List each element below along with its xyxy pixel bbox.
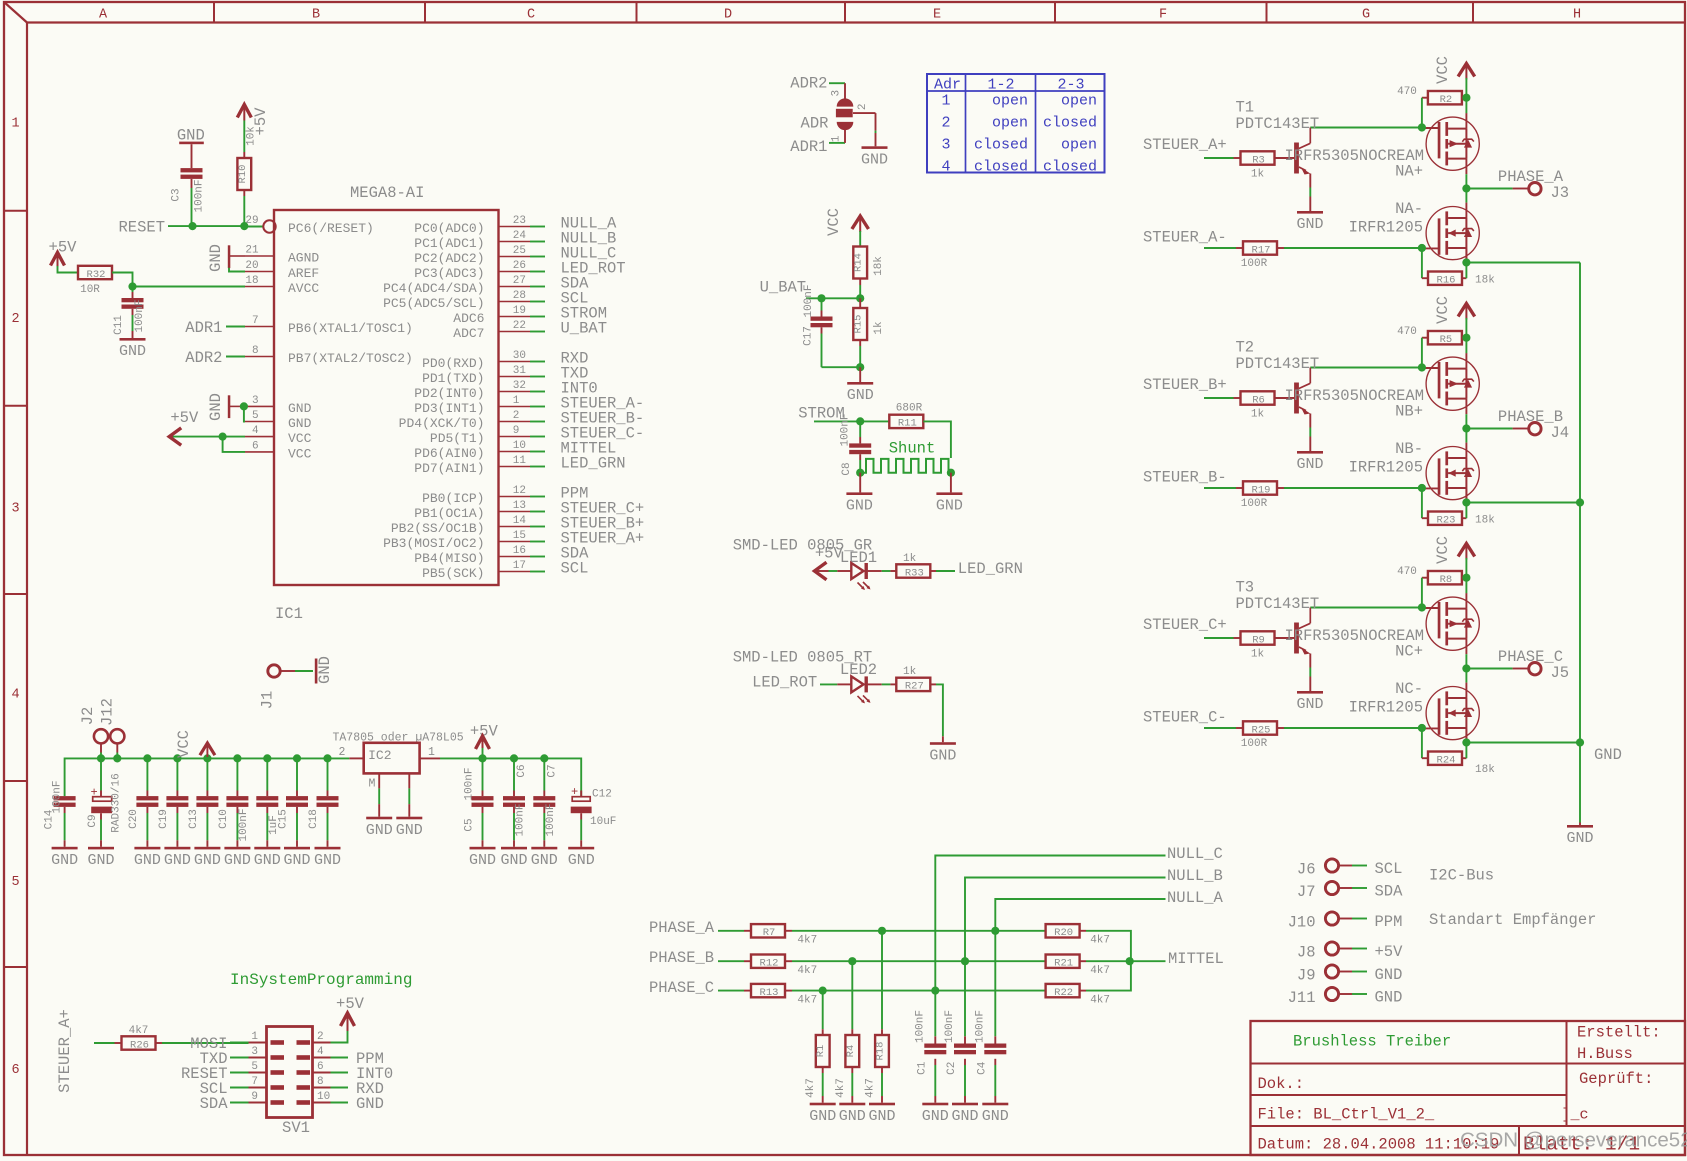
svg-text:File: BL_Ctrl_V1_2_: File: BL_Ctrl_V1_2_ xyxy=(1258,1106,1435,1124)
wire R20 to MITTEL xyxy=(1086,931,1131,961)
svg-text:C20: C20 xyxy=(128,809,140,829)
svg-text:GND: GND xyxy=(396,822,423,839)
junction xyxy=(219,433,227,441)
svg-text:Shunt: Shunt xyxy=(889,440,936,458)
svg-text:4k7: 4k7 xyxy=(1090,994,1110,1006)
svg-text:PB1(OC1A): PB1(OC1A) xyxy=(414,506,484,521)
svg-text:C17: C17 xyxy=(803,326,815,346)
wire R8 jog to gate xyxy=(1421,578,1423,608)
svg-text:18: 18 xyxy=(245,275,258,287)
svg-text:30: 30 xyxy=(513,350,526,362)
wire to connector J3 xyxy=(1466,188,1512,190)
svg-text:1k: 1k xyxy=(1251,168,1265,180)
junction xyxy=(856,469,864,477)
resistor R23 18k xyxy=(1421,488,1423,518)
svg-text:4: 4 xyxy=(11,687,19,702)
wire NULL_C xyxy=(935,856,1165,1037)
ground xyxy=(315,847,341,850)
svg-text:PB5(SCK): PB5(SCK) xyxy=(422,566,484,581)
svg-text:Standart Empfänger: Standart Empfänger xyxy=(1429,911,1596,929)
svg-text:PB7(XTAL2/TOSC2): PB7(XTAL2/TOSC2) xyxy=(288,351,413,366)
wire IC2 legs to GND xyxy=(378,773,380,788)
resistor R6 1k xyxy=(1241,391,1275,404)
svg-text:Geprüft:: Geprüft: xyxy=(1579,1070,1653,1088)
svg-text:100R: 100R xyxy=(1241,258,1268,270)
svg-text:GND: GND xyxy=(51,852,78,869)
svg-text:PD3(INT1): PD3(INT1) xyxy=(414,401,484,416)
svg-text:GND: GND xyxy=(1296,216,1323,233)
svg-text:23: 23 xyxy=(513,215,526,227)
svg-text:PHASE_C: PHASE_C xyxy=(649,979,714,997)
svg-text:PPM: PPM xyxy=(1375,913,1403,931)
svg-text:1-2: 1-2 xyxy=(987,76,1014,93)
wire gate lower FET xyxy=(1284,487,1422,489)
svg-text:GND: GND xyxy=(134,852,161,869)
svg-text:C14: C14 xyxy=(44,809,56,829)
wire source to GND rail xyxy=(1466,742,1580,744)
resistor R15 1k xyxy=(859,298,861,308)
svg-text:C8: C8 xyxy=(841,462,853,475)
svg-text:IC2: IC2 xyxy=(368,748,391,763)
svg-text:R4: R4 xyxy=(845,1045,857,1058)
svg-text:GND: GND xyxy=(119,343,146,360)
svg-text:closed: closed xyxy=(974,136,1028,153)
wire VCC rail xyxy=(1465,318,1467,353)
svg-text:C12: C12 xyxy=(592,788,612,800)
junction xyxy=(128,282,136,290)
svg-text:19: 19 xyxy=(513,305,526,317)
junction xyxy=(856,417,864,425)
capacitor C15 xyxy=(296,758,298,790)
svg-text:GND: GND xyxy=(861,151,888,168)
svg-text:GND: GND xyxy=(846,498,873,515)
svg-text:GND: GND xyxy=(87,852,114,869)
svg-text:R15: R15 xyxy=(853,315,865,334)
svg-text:2-3: 2-3 xyxy=(1057,76,1084,93)
svg-text:NA-: NA- xyxy=(1395,200,1423,218)
connector SV1 body xyxy=(267,1027,313,1118)
svg-text:R3: R3 xyxy=(1252,154,1265,166)
ground below C8 xyxy=(859,473,861,493)
ground xyxy=(531,847,557,850)
svg-text:31: 31 xyxy=(513,365,527,377)
wire NULL_A xyxy=(995,899,1165,1036)
svg-text:1k: 1k xyxy=(903,666,917,678)
wire VCC input rail xyxy=(65,758,350,796)
ground below C2 xyxy=(952,1103,978,1106)
svg-text:ADR1: ADR1 xyxy=(185,319,222,337)
svg-text:GND: GND xyxy=(1566,830,1593,847)
capacitor C5 100nF xyxy=(482,758,484,790)
svg-text:4k7: 4k7 xyxy=(797,965,817,977)
svg-text:R14: R14 xyxy=(853,253,865,272)
svg-text:C13: C13 xyxy=(188,809,200,829)
svg-text:VCC: VCC xyxy=(1434,56,1452,84)
svg-text:GND: GND xyxy=(356,1095,384,1113)
junction xyxy=(1418,603,1426,611)
junction xyxy=(856,363,864,371)
svg-text:IRFR1205: IRFR1205 xyxy=(1349,459,1423,477)
svg-text:VCC: VCC xyxy=(825,208,843,236)
svg-text:PD1(TXD): PD1(TXD) xyxy=(422,371,484,386)
wire RESET net xyxy=(168,225,245,227)
svg-text:R6: R6 xyxy=(1252,394,1265,406)
svg-text:GND: GND xyxy=(288,401,312,416)
capacitor C13 xyxy=(206,758,208,790)
svg-text:GND: GND xyxy=(288,416,312,431)
svg-text:4k7: 4k7 xyxy=(1090,935,1110,947)
svg-text:1: 1 xyxy=(11,116,19,131)
wire PHASE_C xyxy=(718,990,744,992)
svg-text:PDTC143ET: PDTC143ET xyxy=(1236,115,1320,133)
svg-text:PDTC143ET: PDTC143ET xyxy=(1236,595,1320,613)
svg-text:]_c: ]_c xyxy=(1562,1106,1589,1123)
svg-text:1k: 1k xyxy=(903,553,917,565)
wire STEUER_B+ xyxy=(1204,397,1234,399)
capacitor C17 100nF xyxy=(821,298,823,310)
svg-text:LED1: LED1 xyxy=(840,549,877,567)
svg-text:GND: GND xyxy=(847,387,874,404)
ground xyxy=(134,847,160,850)
junction xyxy=(819,987,827,995)
wire VCC pins xyxy=(173,436,245,438)
svg-text:open: open xyxy=(992,92,1028,109)
svg-text:100nF: 100nF xyxy=(193,179,205,212)
svg-text:GND: GND xyxy=(951,1108,978,1125)
svg-text:VCC: VCC xyxy=(288,431,312,446)
ground IC2 left leg xyxy=(366,817,392,820)
capacitor C6 100nF xyxy=(513,758,515,790)
svg-text:28: 28 xyxy=(513,290,526,302)
svg-text:100nF: 100nF xyxy=(914,1010,926,1043)
svg-text:STEUER_A+: STEUER_A+ xyxy=(1143,136,1227,154)
wire gate net NA+ xyxy=(1310,127,1422,129)
svg-text:PC3(ADC3): PC3(ADC3) xyxy=(414,266,484,281)
svg-text:6: 6 xyxy=(11,1063,19,1078)
svg-text:100nF: 100nF xyxy=(944,1010,956,1043)
junction xyxy=(1418,244,1426,252)
wire R22 to MITTEL xyxy=(1086,961,1131,990)
svg-text:GND: GND xyxy=(316,656,334,684)
svg-text:ADR2: ADR2 xyxy=(185,349,222,367)
svg-text:5: 5 xyxy=(11,875,19,890)
LED LED1 symbol xyxy=(851,563,863,579)
svg-text:STEUER_A-: STEUER_A- xyxy=(1143,229,1227,247)
svg-text:GND: GND xyxy=(314,852,341,869)
resistor R12 4k7 xyxy=(751,955,785,968)
wire phase node PHASE_A xyxy=(1465,174,1467,202)
svg-text:PD5(T1): PD5(T1) xyxy=(430,431,485,446)
svg-text:VCC: VCC xyxy=(1434,536,1452,564)
svg-text:M: M xyxy=(369,778,376,791)
wire R26 to SV1 xyxy=(162,1042,249,1044)
wire U_BAT xyxy=(806,297,860,299)
ground xyxy=(224,847,250,850)
svg-text:J1: J1 xyxy=(259,691,277,710)
svg-text:C: C xyxy=(527,7,535,22)
wire PHASE_B xyxy=(718,960,744,962)
svg-text:J10: J10 xyxy=(1288,914,1316,932)
svg-text:4k7: 4k7 xyxy=(797,994,817,1006)
resistor R11 680R xyxy=(889,415,923,428)
svg-text:GND: GND xyxy=(1375,966,1403,984)
ground below R4 xyxy=(839,1103,865,1106)
wire MITTEL xyxy=(1130,960,1166,962)
wire jumper pin2 to GND xyxy=(853,112,876,114)
svg-text:GND: GND xyxy=(1296,456,1323,473)
wire R5 jog to gate xyxy=(1421,338,1423,368)
svg-text:NC-: NC- xyxy=(1395,680,1423,698)
svg-text:IRFR1205: IRFR1205 xyxy=(1349,219,1423,237)
svg-text:R7: R7 xyxy=(763,927,776,939)
svg-text:GND: GND xyxy=(936,498,963,515)
svg-text:C6: C6 xyxy=(516,764,528,777)
svg-text:G: G xyxy=(1362,7,1370,22)
svg-text:ADC6: ADC6 xyxy=(453,311,484,326)
wire GND pins 3-5 xyxy=(244,406,245,421)
svg-text:R2: R2 xyxy=(1440,94,1453,106)
wire source to GND rail xyxy=(1466,502,1580,504)
junction xyxy=(478,754,486,762)
svg-text:18k: 18k xyxy=(1475,764,1495,776)
svg-text:closed: closed xyxy=(1043,158,1097,175)
svg-text:100nF: 100nF xyxy=(840,413,852,446)
svg-text:26: 26 xyxy=(513,260,526,272)
svg-text:12: 12 xyxy=(513,485,526,497)
svg-text:C3: C3 xyxy=(171,188,183,201)
svg-text:GND: GND xyxy=(164,852,191,869)
capacitor C20 xyxy=(146,758,148,790)
svg-text:4: 4 xyxy=(941,158,950,175)
wire ADR1 xyxy=(226,326,245,328)
svg-text:1: 1 xyxy=(941,92,950,109)
ground below C9 xyxy=(88,847,114,850)
wire row C xyxy=(792,990,1046,992)
svg-text:LED_ROT: LED_ROT xyxy=(752,674,817,692)
svg-text:13: 13 xyxy=(513,500,526,512)
wire ADR2 xyxy=(226,356,245,358)
wire R21 to MITTEL xyxy=(1086,960,1130,962)
svg-text:GND: GND xyxy=(469,852,496,869)
svg-text:H: H xyxy=(1573,7,1581,22)
capacitor C18 xyxy=(327,758,329,790)
svg-text:open: open xyxy=(1061,92,1097,109)
resistor R24 18k xyxy=(1421,728,1423,758)
svg-text:3: 3 xyxy=(251,1046,258,1058)
svg-text:2: 2 xyxy=(339,746,346,759)
svg-text:100nF: 100nF xyxy=(464,767,476,800)
svg-text:GND: GND xyxy=(1296,696,1323,713)
capacitor C4 100nF xyxy=(994,1036,996,1043)
svg-text:32: 32 xyxy=(513,380,526,392)
svg-text:STEUER_C-: STEUER_C- xyxy=(1143,709,1227,727)
ground IC2 right leg xyxy=(396,817,422,820)
ground below R18 xyxy=(869,1103,895,1106)
svg-text:PC0(ADC0): PC0(ADC0) xyxy=(414,221,484,236)
svg-text:C18: C18 xyxy=(308,809,320,829)
capacitor C11 100nF xyxy=(132,287,134,293)
junction xyxy=(1462,334,1470,342)
svg-text:PB0(ICP): PB0(ICP) xyxy=(422,491,484,506)
junction xyxy=(1462,574,1470,582)
ground xyxy=(501,847,527,850)
svg-text:1: 1 xyxy=(251,1031,258,1043)
IC1 left pins xyxy=(245,226,264,228)
wire STEUER_B- xyxy=(1204,487,1236,489)
svg-text:PHASE_B: PHASE_B xyxy=(649,949,714,967)
svg-text:18k: 18k xyxy=(1475,514,1495,526)
svg-text:GND: GND xyxy=(929,747,956,764)
svg-text:R22: R22 xyxy=(1054,987,1073,999)
svg-text:C10: C10 xyxy=(218,809,230,829)
wire STEUER_A+ to R26 xyxy=(94,1042,115,1044)
svg-text:4k7: 4k7 xyxy=(865,1078,877,1098)
svg-text:open: open xyxy=(992,114,1028,131)
wire LED_ROT to LED2 xyxy=(820,683,837,685)
svg-text:J5: J5 xyxy=(1551,664,1570,682)
wire source node xyxy=(1465,488,1467,498)
wire LED1 to R33 xyxy=(868,570,882,572)
svg-text:R26: R26 xyxy=(130,1039,149,1051)
svg-text:3: 3 xyxy=(941,136,950,153)
svg-text:4k7: 4k7 xyxy=(805,1078,817,1098)
svg-text:PC1(ADC1): PC1(ADC1) xyxy=(414,236,484,251)
wire R27 to GND xyxy=(930,683,936,685)
wire ADR1 to jumper xyxy=(829,142,845,144)
ground below jumper xyxy=(862,146,888,149)
resistor R7 4k7 xyxy=(751,924,785,937)
svg-text:1: 1 xyxy=(830,135,842,142)
svg-text:10: 10 xyxy=(513,440,526,452)
svg-text:470: 470 xyxy=(1397,566,1417,578)
svg-text:LED_GRN: LED_GRN xyxy=(561,455,626,473)
resistor R3 1k xyxy=(1241,151,1275,164)
wire GND rail vertical xyxy=(1579,263,1581,823)
svg-text:9: 9 xyxy=(513,425,520,437)
svg-text:SDA: SDA xyxy=(200,1095,229,1113)
svg-text:PHASE_A: PHASE_A xyxy=(649,919,715,937)
svg-text:100R: 100R xyxy=(1241,498,1268,510)
junction xyxy=(878,927,886,935)
svg-text:24: 24 xyxy=(513,230,527,242)
junction xyxy=(1462,258,1470,266)
svg-text:PC5(ADC5/SCL): PC5(ADC5/SCL) xyxy=(383,296,484,311)
svg-text:SCL: SCL xyxy=(1375,860,1403,878)
resistor R18 4k7 xyxy=(881,931,883,1029)
svg-text:GND: GND xyxy=(982,1108,1009,1125)
connector J1 xyxy=(268,665,280,677)
svg-text:AVCC: AVCC xyxy=(288,281,319,296)
svg-text:RAD330/16: RAD330/16 xyxy=(111,773,123,832)
wire gate net NC+ xyxy=(1310,607,1422,609)
svg-text:10k: 10k xyxy=(246,126,258,146)
svg-text:PC4(ADC4/SDA): PC4(ADC4/SDA) xyxy=(383,281,484,296)
svg-text:4: 4 xyxy=(317,1046,324,1058)
svg-text:J2: J2 xyxy=(79,707,97,726)
wire row B xyxy=(792,960,1046,962)
svg-text:IRFR1205: IRFR1205 xyxy=(1349,699,1423,717)
svg-text:R21: R21 xyxy=(1054,958,1073,970)
svg-text:PB3(MOSI/OC2): PB3(MOSI/OC2) xyxy=(383,536,484,551)
svg-text:GND: GND xyxy=(922,1108,949,1125)
wire phase node PHASE_B xyxy=(1465,414,1467,442)
svg-text:NB-: NB- xyxy=(1395,440,1423,458)
svg-text:Dok.:: Dok.: xyxy=(1258,1075,1305,1093)
ground below R27 xyxy=(930,742,956,745)
svg-text:PC2(ADC2): PC2(ADC2) xyxy=(414,251,484,266)
svg-text:4: 4 xyxy=(252,425,259,437)
svg-text:C5: C5 xyxy=(464,818,476,831)
wire J2/J12 to rail xyxy=(100,744,102,753)
capacitor C10 xyxy=(236,758,238,790)
svg-text:R8: R8 xyxy=(1440,574,1453,586)
svg-text:3: 3 xyxy=(830,90,842,97)
LED LED2 symbol xyxy=(851,676,863,692)
wire source to GND rail xyxy=(1466,262,1580,264)
svg-text:25: 25 xyxy=(513,245,526,257)
svg-text:100nF: 100nF xyxy=(545,803,557,836)
capacitor C8 100nF xyxy=(859,421,861,437)
svg-text:2: 2 xyxy=(513,410,520,422)
wire VCC rail xyxy=(1465,558,1467,593)
IC1 right pins xyxy=(499,226,530,228)
frame column dividers xyxy=(213,2,215,23)
svg-text:ADR2: ADR2 xyxy=(790,75,827,93)
svg-text:SV1: SV1 xyxy=(282,1119,310,1137)
junction xyxy=(848,957,856,965)
svg-text:A: A xyxy=(99,7,108,22)
shunt resistor (zigzag) xyxy=(860,459,951,473)
svg-text:C9: C9 xyxy=(87,814,99,827)
svg-text:PB4(MISO): PB4(MISO) xyxy=(414,551,484,566)
junction xyxy=(1418,123,1426,131)
svg-text:STEUER_B+: STEUER_B+ xyxy=(1143,376,1227,394)
capacitor C2 100nF xyxy=(964,1036,966,1043)
svg-text:J9: J9 xyxy=(1297,967,1316,985)
svg-text:J6: J6 xyxy=(1297,861,1316,879)
resistor R25 100R xyxy=(1243,721,1277,734)
svg-text:C4: C4 xyxy=(976,1061,988,1075)
frame corner bevel xyxy=(4,2,27,23)
svg-text:7: 7 xyxy=(252,315,259,327)
svg-text:18k: 18k xyxy=(1475,274,1495,286)
svg-text:GND: GND xyxy=(839,1108,866,1125)
svg-text:PB2(SS/OC1B): PB2(SS/OC1B) xyxy=(391,521,485,536)
ground at J1 (rotated) xyxy=(315,659,318,684)
svg-text:U_BAT: U_BAT xyxy=(760,279,807,297)
wire STEUER_C+ xyxy=(1204,637,1234,639)
svg-text:GND: GND xyxy=(366,822,393,839)
svg-text:Brushless Treiber: Brushless Treiber xyxy=(1293,1033,1451,1051)
svg-text:18k: 18k xyxy=(873,256,885,276)
SV1 pads xyxy=(271,1040,285,1045)
svg-text:GND: GND xyxy=(207,393,225,421)
junction xyxy=(188,222,196,230)
wire +5V to LED1 xyxy=(829,570,838,572)
ground below C1 xyxy=(922,1103,948,1106)
svg-text:1k: 1k xyxy=(1251,408,1265,420)
svg-text:GND: GND xyxy=(868,1108,895,1125)
svg-text:PD4(XCK/T0): PD4(XCK/T0) xyxy=(399,416,485,431)
svg-text:PB6(XTAL1/TOSC1): PB6(XTAL1/TOSC1) xyxy=(288,321,413,336)
resistor R10 10k xyxy=(237,158,251,190)
svg-text:1k: 1k xyxy=(873,321,885,335)
junction xyxy=(97,754,105,762)
svg-text:GND: GND xyxy=(254,852,281,869)
svg-text:R12: R12 xyxy=(760,958,779,970)
svg-text:100nF: 100nF xyxy=(515,803,527,836)
svg-text:NB+: NB+ xyxy=(1395,403,1423,421)
